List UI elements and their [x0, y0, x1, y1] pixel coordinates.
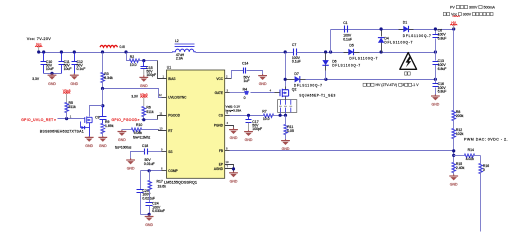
svg-text:3.3V: 3.3V [32, 77, 40, 81]
svg-text:13: 13 [226, 160, 229, 164]
capacitor C16 [433, 84, 439, 87]
capacitor C7 [294, 49, 297, 56]
pin stub COMP [162, 170, 167, 172]
svg-text:D5: D5 [349, 44, 353, 48]
svg-text:6.8uF: 6.8uF [438, 36, 447, 40]
ground for C14 [262, 74, 264, 75]
svg-text:tss=1000us: tss=1000us [115, 146, 132, 150]
svg-text:DFLS1100Q-7: DFLS1100Q-7 [384, 41, 412, 45]
wire PGOOD [142, 119, 158, 121]
resistor R16 [480, 156, 482, 164]
svg-text:10.0: 10.0 [263, 117, 270, 121]
svg-text:GND: GND [450, 183, 458, 187]
svg-text:R17: R17 [157, 180, 163, 184]
svg-text:0: 0 [244, 96, 246, 100]
svg-text:R7: R7 [262, 110, 266, 114]
svg-text:10uF: 10uF [46, 67, 54, 71]
wire Q1 source [89, 123, 91, 137]
svg-text:D7: D7 [294, 72, 298, 76]
svg-text:0.1uF: 0.1uF [343, 37, 352, 41]
svg-text:-1 V: -1 V [412, 83, 419, 87]
svg-text:C7: C7 [292, 43, 296, 47]
svg-text:500mA: 500mA [483, 5, 496, 9]
svg-text:Vcc: 7V-20V: Vcc: 7V-20V [27, 37, 51, 41]
svg-text:Vcc: Vcc [36, 43, 42, 47]
svg-text:12: 12 [159, 93, 162, 97]
resistor R2 [127, 53, 130, 61]
annotation output formula [363, 83, 366, 86]
diode D1 [399, 29, 404, 31]
svg-text:1.69k: 1.69k [105, 124, 114, 128]
svg-text:HV: HV [451, 21, 456, 25]
wire Q2 drain [285, 53, 287, 87]
resistor R10 [122, 129, 132, 131]
svg-text:0: 0 [483, 168, 485, 172]
svg-text:200k: 200k [456, 114, 464, 118]
pin stub UVLO [162, 97, 167, 99]
annotation red squiggle on rail [100, 45, 118, 47]
ground for RT [121, 130, 123, 132]
svg-text:10uF: 10uF [64, 67, 72, 71]
svg-text:EP: EP [219, 162, 223, 166]
svg-text:C14: C14 [242, 62, 248, 66]
svg-text:PGOOD: PGOOD [168, 114, 180, 118]
diode D7 [287, 79, 295, 81]
svg-text:6.8uF: 6.8uF [438, 67, 447, 71]
pin stub SS [162, 151, 167, 153]
svg-text:SQJA66EP-T1_GE3: SQJA66EP-T1_GE3 [299, 94, 335, 98]
wire switch rail [196, 52, 294, 54]
capacitor C12 [74, 53, 76, 62]
wire VCC pin [225, 78, 232, 80]
ground under R9 [102, 136, 104, 137]
capacitor C18 [148, 151, 162, 153]
capacitor C9 [102, 106, 104, 117]
svg-text:1uF: 1uF [244, 79, 250, 83]
svg-text:LM5155QDSSRQ1: LM5155QDSSRQ1 [164, 179, 197, 184]
resistor R6 [142, 107, 146, 117]
svg-text:DFLS1100Q-7: DFLS1100Q-7 [294, 84, 322, 88]
inductor L2 [175, 44, 195, 47]
op-amp U1 LM5155 body [167, 70, 225, 178]
capacitor C6 [433, 35, 439, 38]
svg-text:C1: C1 [343, 21, 347, 25]
wire box to CS node [281, 113, 286, 116]
resistor R11 sense [285, 116, 287, 125]
annotation HV label cjk [405, 72, 407, 75]
svg-text:DFLS1100Q-7: DFLS1100Q-7 [349, 56, 377, 60]
ground for PGND [233, 128, 235, 130]
svg-text:DFLS1100Q-7: DFLS1100Q-7 [403, 34, 431, 38]
junction dots HV mid rail [324, 78, 327, 81]
ground for AGND [233, 171, 235, 173]
junction dots pump rail [324, 50, 327, 53]
svg-text:0.022uF: 0.022uF [142, 197, 155, 201]
capacitor C10 [43, 53, 45, 62]
wire gate GPIO_UVLO_RET [58, 118, 85, 120]
wire top rail [331, 29, 454, 31]
wire PGND [225, 126, 234, 128]
svg-text:GND: GND [127, 167, 135, 171]
resistor R5 [65, 103, 69, 113]
svg-text:Iavg=3.33A: Iavg=3.33A [226, 109, 243, 113]
svg-text:511k: 511k [146, 110, 153, 114]
wire FB [225, 150, 230, 152]
svg-text:C18: C18 [142, 144, 148, 148]
svg-text:PWM DAC: 0VDC - 2.8: PWM DAC: 0VDC - 2.8 [464, 137, 508, 141]
svg-text:102k: 102k [456, 132, 464, 136]
capacitor C13 [433, 62, 439, 65]
svg-text:6.34k: 6.34k [104, 76, 113, 80]
pin stub BIAS [158, 61, 167, 79]
resistor R15 [452, 163, 456, 173]
svg-text:R4: R4 [243, 87, 247, 91]
svg-text:GND: GND [259, 82, 267, 86]
svg-text:GND: GND [145, 223, 153, 227]
resistor R12 [452, 129, 456, 139]
wire UVLO node down [102, 89, 104, 106]
svg-text:GPIO_UVLO_RET: GPIO_UVLO_RET [21, 118, 53, 122]
svg-text:GND: GND [85, 144, 93, 148]
resistor R4 [225, 92, 230, 94]
transistor Q1 [85, 116, 92, 123]
wire R8 R12 [453, 119, 455, 129]
Q2 source package box [285, 97, 287, 100]
svg-text:2.9A: 2.9A [176, 57, 184, 61]
svg-text:6.8uF: 6.8uF [438, 90, 447, 94]
annotation top right line2 [443, 12, 446, 15]
svg-text:fsw=2.2Mhz: fsw=2.2Mhz [133, 136, 151, 140]
svg-text:PV: PV [450, 5, 456, 9]
svg-text:VCC: VCC [216, 77, 223, 81]
svg-text:GND: GND [140, 84, 148, 88]
svg-text:RT: RT [168, 129, 172, 133]
svg-text:HV (27V-47V): HV (27V-47V) [375, 83, 399, 87]
power flag V3p3 over R5 [63, 92, 70, 93]
svg-text:AGND: AGND [214, 167, 224, 171]
svg-text:0.1uF: 0.1uF [292, 60, 301, 64]
wire UVLO node to pin [103, 89, 162, 98]
svg-text:0.05: 0.05 [287, 129, 294, 133]
svg-text:GPIO_PGOOD: GPIO_PGOOD [112, 118, 138, 122]
ground for output caps [434, 94, 436, 96]
ground for SS [130, 158, 132, 160]
ground under C15 [143, 75, 145, 77]
wire BIAS [144, 60, 158, 62]
wire up to top rail [330, 30, 332, 53]
zener gate protection Q1 [81, 122, 82, 128]
wire main input rail [39, 52, 173, 54]
ground under C10 C11 [51, 73, 53, 75]
svg-text:L2: L2 [175, 39, 179, 43]
power flag HV [450, 24, 457, 25]
svg-text:0.033uF: 0.033uF [152, 209, 165, 213]
wire COMP [141, 170, 162, 172]
svg-text:GND: GND [48, 82, 56, 86]
wire FB node [453, 137, 455, 163]
svg-text:4.02k: 4.02k [466, 157, 475, 161]
svg-text:BIAS: BIAS [168, 77, 175, 81]
svg-text:U1: U1 [167, 66, 171, 70]
ground for R11 [285, 139, 287, 140]
svg-text:»: » [138, 118, 140, 122]
pin stub RT [159, 130, 167, 131]
capacitor C24 [149, 189, 151, 203]
svg-text:300V: 300V [462, 12, 472, 16]
svg-text:GND: GND [432, 103, 440, 107]
ground under Q1 [88, 136, 90, 137]
svg-text:GATE: GATE [215, 91, 223, 95]
svg-text:BSS806NEH6327XTSA1: BSS806NEH6327XTSA1 [40, 130, 84, 134]
transistor Q2 [280, 89, 289, 97]
svg-text:D1: D1 [403, 21, 407, 25]
capacitor C11 [61, 53, 63, 62]
pin stub PGOOD [158, 116, 167, 120]
svg-text:FB: FB [219, 149, 223, 153]
resistor R7 [264, 114, 274, 118]
svg-text:3.3V: 3.3V [131, 94, 138, 98]
junction dots on input rail [37, 50, 40, 53]
resistor R17 [149, 171, 151, 181]
svg-text:0.8I: 0.8I [120, 45, 126, 49]
wire EP AGND [225, 165, 234, 172]
diode D6 [325, 53, 327, 61]
svg-text:19.6k: 19.6k [158, 185, 167, 189]
capacitor C1 [345, 26, 348, 33]
svg-text:C9: C9 [95, 116, 99, 120]
svg-text:V3p3: V3p3 [140, 93, 148, 97]
svg-text:R14: R14 [468, 148, 474, 152]
svg-text:COMP: COMP [168, 169, 177, 173]
svg-text:0.01uF: 0.01uF [144, 162, 155, 166]
wire HV down [453, 30, 455, 111]
resistor R3 [102, 53, 104, 73]
svg-text:GND: GND [99, 144, 107, 148]
power flag Vcc [35, 46, 42, 47]
svg-text:GND: GND [230, 136, 238, 140]
svg-text:R2: R2 [130, 55, 134, 59]
svg-text:UVLO/SYNC: UVLO/SYNC [168, 95, 187, 99]
capacitor C15 [143, 61, 145, 67]
svg-text:SS: SS [168, 150, 172, 154]
svg-text:2.40k: 2.40k [456, 166, 465, 170]
svg-text:Q2: Q2 [292, 88, 297, 92]
svg-text:511k: 511k [69, 105, 76, 109]
resistor R14 [454, 155, 465, 157]
wire comp bottom [141, 214, 150, 216]
capacitor C23 [140, 171, 142, 190]
ground under C12 [73, 73, 75, 75]
high voltage warning symbol [400, 53, 417, 70]
wire cap bottoms [44, 73, 62, 75]
diode D5 [344, 52, 349, 54]
capacitor C14 [244, 68, 246, 74]
resistor R8 [452, 111, 456, 121]
ground for COMP [148, 214, 150, 216]
svg-text:PGND: PGND [214, 123, 224, 127]
svg-text:»: » [54, 118, 56, 122]
wire output cap chain [435, 30, 437, 95]
svg-text:GND: GND [70, 82, 78, 86]
svg-text:100pF: 100pF [252, 127, 262, 131]
svg-text:DFLS1100Q-7: DFLS1100Q-7 [332, 64, 360, 68]
svg-text:R10: R10 [136, 123, 142, 127]
svg-text:10.0: 10.0 [130, 63, 137, 67]
svg-text:100pF: 100pF [146, 73, 156, 77]
svg-text:GND: GND [230, 179, 238, 183]
ground for C17 [248, 130, 250, 131]
diode D4 [381, 30, 383, 37]
svg-text:10: 10 [160, 126, 163, 130]
svg-text:300V: 300V [468, 5, 478, 9]
svg-text:3: 3 [402, 83, 404, 87]
capacitor C17 [248, 116, 250, 120]
svg-text:CS: CS [219, 114, 223, 118]
wire Q1 drain [90, 106, 103, 117]
svg-text:GND: GND [245, 138, 253, 142]
ground for R15 [453, 174, 455, 176]
wire CS [225, 115, 230, 117]
resistor R9 [102, 120, 104, 124]
svg-text:GND: GND [118, 138, 126, 142]
svg-text:0.1uF: 0.1uF [77, 67, 86, 71]
svg-text:V3p3: V3p3 [63, 89, 71, 93]
power flag V3p3 over R6 [140, 96, 147, 97]
